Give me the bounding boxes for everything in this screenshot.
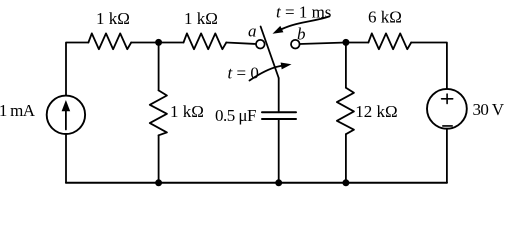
wire top node down to shunt resistor [158, 43, 160, 91]
wire b to 12k node [300, 43, 346, 45]
svg-text:1 kΩ: 1 kΩ [170, 102, 204, 121]
wire current source to bottom wire [65, 134, 67, 183]
bottom wire [66, 182, 447, 184]
svg-text:6 kΩ: 6 kΩ [368, 7, 402, 26]
junction dot top node A [155, 39, 162, 46]
svg-text:0.5 μF: 0.5 μF [215, 106, 257, 125]
svg-text:1 mA: 1 mA [0, 101, 36, 120]
resistor R1 1 kOhm horizontal zigzag [88, 33, 131, 49]
wire switch pole down to capacitor [278, 78, 280, 112]
t=1ms arrow curve [282, 17, 329, 30]
svg-text:a: a [248, 22, 257, 41]
capacitor C 0.5uF top plate [262, 111, 296, 113]
svg-text:1 kΩ: 1 kΩ [184, 9, 218, 28]
t=0 arrowhead [281, 63, 292, 70]
wire R2 to switch terminal a [226, 43, 256, 45]
wire shunt resistor to bottom wire [158, 135, 160, 183]
switch arm (pole) [261, 27, 279, 79]
resistor 1 kOhm shunt vertical zigzag [150, 90, 167, 135]
voltage source circle [427, 89, 467, 129]
capacitor C 0.5uF bottom plate [262, 118, 296, 120]
current source arrowhead [62, 100, 71, 111]
wire node to R2 [159, 42, 184, 44]
svg-text:30 V: 30 V [473, 100, 505, 119]
svg-text:12 kΩ: 12 kΩ [355, 102, 397, 121]
wire node to R3 [346, 42, 369, 44]
wire 12k resistor to bottom wire [345, 134, 347, 183]
voltage source minus sign [443, 125, 452, 127]
wire R3 to top-right corner down to voltage source [411, 43, 447, 89]
wire capacitor to bottom wire [278, 119, 280, 183]
svg-text:t = 0: t = 0 [228, 63, 259, 82]
junction dot top node B [342, 39, 349, 46]
voltage source plus sign [442, 94, 453, 103]
switch terminal a open circle [256, 40, 265, 49]
t=1ms arrowhead [273, 26, 284, 34]
switch terminal b open circle [291, 40, 300, 49]
resistor R2 1 kOhm horizontal zigzag [184, 33, 227, 49]
junction dot bottom capacitor [275, 179, 282, 186]
current source arrow shaft [65, 110, 67, 130]
wire voltage source to bottom wire [446, 129, 448, 183]
junction dot bottom shunt [155, 179, 162, 186]
svg-text:t = 1 ms: t = 1 ms [276, 2, 331, 21]
wire top node down to 12k resistor [345, 43, 347, 88]
wire R1 to node at 1 kOhm shunt [131, 42, 158, 44]
svg-text:1 kΩ: 1 kΩ [96, 9, 130, 28]
junction dot bottom 12k [342, 179, 349, 186]
resistor 12 kOhm vertical zigzag [337, 88, 354, 135]
svg-text:b: b [297, 25, 306, 44]
resistor R3 6 kOhm horizontal zigzag [368, 33, 411, 49]
current source circle [47, 96, 85, 134]
wire top-left corner from current source to R1 [66, 43, 88, 96]
t=0 arrow curve [250, 66, 282, 81]
